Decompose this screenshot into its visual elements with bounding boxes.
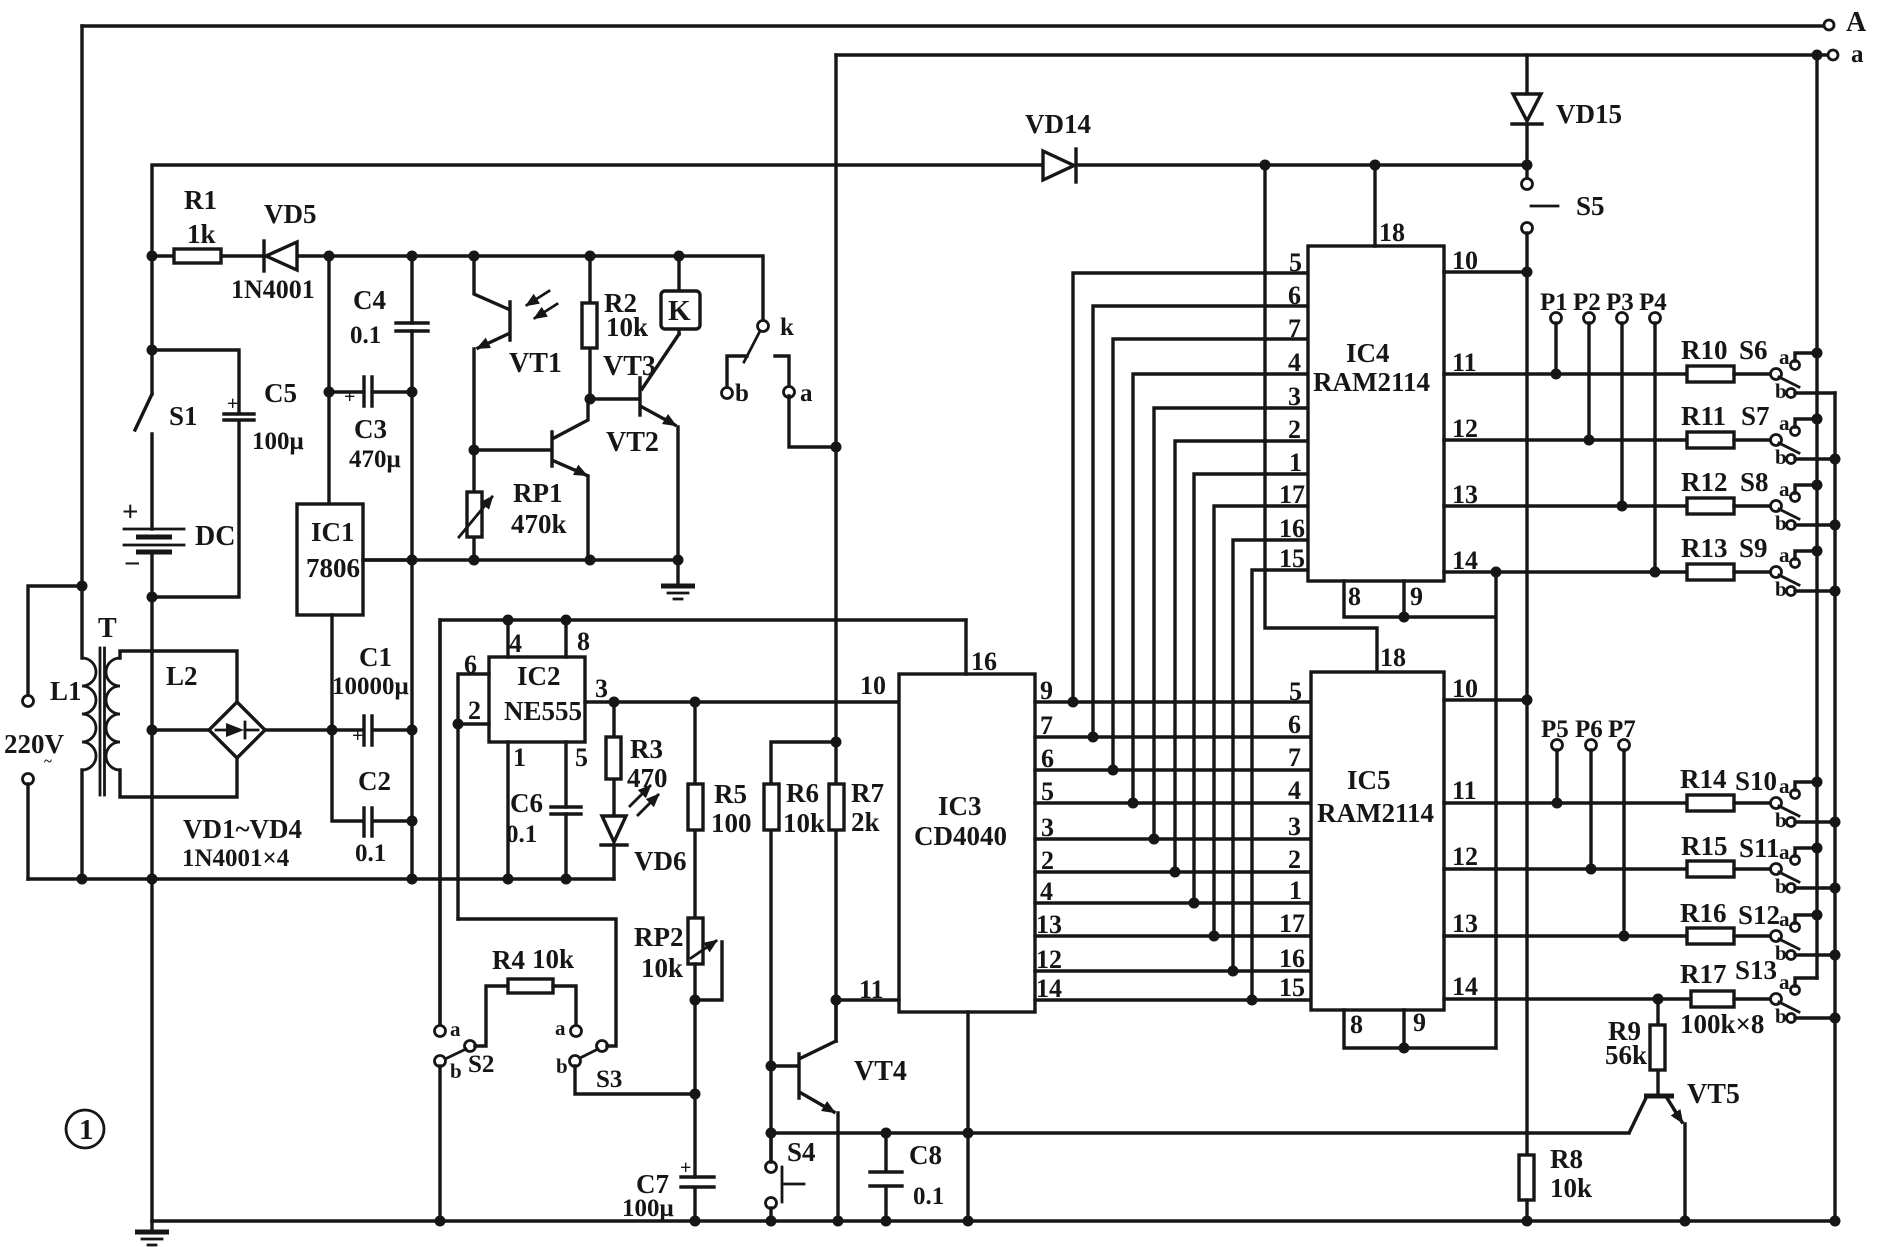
svg-text:9: 9 [1413,1008,1426,1037]
svg-text:VD14: VD14 [1025,109,1091,139]
svg-text:8: 8 [577,627,590,656]
node battery-S1 junction [147,345,158,356]
wire IC3-IC5 data lines [1035,702,1311,1000]
svg-text:VD6: VD6 [634,846,687,876]
node R2-VT3 junction [585,394,596,405]
pin labels IC5 bottom [1350,1008,1426,1039]
wire second rail a [836,53,1828,56]
node C2 right [407,816,418,827]
svg-text:2: 2 [468,696,481,725]
svg-text:2: 2 [1288,415,1301,444]
node R3 top [609,697,620,708]
svg-text:a: a [1779,543,1790,567]
wire address cascade 8 [1214,506,1308,936]
svg-text:5: 5 [1289,677,1302,706]
svg-text:DC: DC [195,521,235,552]
svg-text:RAM2114: RAM2114 [1317,798,1434,828]
svg-text:VD15: VD15 [1556,99,1622,129]
node C1 right [407,725,418,736]
svg-text:7: 7 [1288,314,1301,343]
wire battery negative column [150,597,153,1221]
svg-text:3: 3 [1288,812,1301,841]
op-amp IC1 regulator 7806 [297,504,412,730]
resistor R9 [1605,999,1665,1096]
wire VCC riser to IC5 pin18 [1265,165,1377,672]
wire address cascade 9 [1233,540,1308,971]
svg-text:100μ: 100μ [252,428,304,455]
svg-text:6: 6 [1288,710,1301,739]
svg-text:15: 15 [1279,544,1305,573]
switch S6 [1739,335,1835,403]
svg-text:14: 14 [1452,972,1478,1001]
svg-text:0.1: 0.1 [355,840,386,867]
resistor R10 [1681,335,1771,382]
svg-text:2: 2 [1041,846,1054,875]
switch S7 [1741,401,1835,469]
wire VD14 rail [152,165,1527,256]
svg-text:S8: S8 [1740,467,1769,497]
svg-text:5: 5 [1041,777,1054,806]
svg-text:R6: R6 [786,778,819,808]
node border 220V tap [77,581,88,592]
op-amp IC4 RAM2114 [1308,165,1444,581]
svg-text:100k×8: 100k×8 [1680,1009,1764,1039]
svg-text:R16: R16 [1680,898,1727,928]
capacitor C2 [332,730,412,867]
svg-text:a: a [1779,345,1790,369]
resistor R16 [1680,898,1771,944]
pin labels IC4 left [1279,248,1305,573]
svg-text:S2: S2 [468,1051,494,1078]
svg-text:470μ: 470μ [349,446,401,473]
capacitor C1 [265,642,412,747]
svg-text:IC3: IC3 [938,791,982,821]
switch S3 [458,919,695,1094]
op-amp IC3 CD4040 [836,620,1035,1221]
node rail560 junctions [407,555,418,566]
svg-text:R12: R12 [1681,467,1728,497]
node R17-R9 junction [1653,994,1664,1005]
node C3 left [324,387,335,398]
svg-text:RP1: RP1 [513,478,563,508]
svg-text:R10: R10 [1681,335,1728,365]
svg-text:NE555: NE555 [504,696,582,726]
transistor VT1 photo [474,256,562,450]
wire address cascade 3 [1113,339,1308,770]
wire address cascade 7 [1194,474,1308,903]
svg-text:R13: R13 [1681,533,1728,563]
pin labels IC5 left [1279,677,1305,1002]
svg-text:13: 13 [1036,910,1062,939]
svg-text:7: 7 [1288,743,1301,772]
svg-text:C8: C8 [909,1140,942,1170]
resistor R12 [1681,467,1771,514]
switch S2 with resistor R4 [435,620,509,1221]
switch S12 [1738,900,1835,965]
svg-text:VT1: VT1 [509,348,562,379]
svg-text:b: b [1775,511,1787,535]
svg-text:9: 9 [1410,582,1423,611]
svg-text:VD5: VD5 [264,199,317,229]
node pin2-6 junction [453,719,464,730]
svg-text:100: 100 [711,808,752,838]
transistor VT5 [1630,1079,1740,1221]
switch S1 [135,256,198,529]
pin labels IC4 right [1452,246,1478,575]
node a terminal [1828,41,1864,68]
node pin4 pin8 supply [503,615,514,626]
svg-text:K: K [668,295,691,327]
svg-text:0.1: 0.1 [913,1183,944,1210]
node battery bottom junction [147,592,158,603]
resistor R3 [606,702,668,815]
node C3 right [407,387,418,398]
wire IC5 right pins [1444,700,1691,999]
svg-text:S1: S1 [169,401,198,431]
svg-text:11: 11 [1452,776,1477,805]
svg-text:VT2: VT2 [606,427,659,458]
svg-text:IC4: IC4 [1346,338,1390,368]
node A terminal [1824,7,1867,38]
node cascade junctions [1068,697,1079,708]
svg-text:0.1: 0.1 [506,821,537,848]
svg-text:a: a [1779,840,1790,864]
wire bottom rail [152,1219,1836,1222]
node rail255 junctions [324,251,335,262]
svg-text:4: 4 [509,629,522,658]
wire C4 column [410,256,413,879]
resistor R1 [174,185,221,263]
capacitor C3 [329,377,412,473]
node riser junctions [1260,160,1271,171]
node R5 top [690,697,701,708]
svg-text:10k: 10k [1550,1173,1592,1203]
svg-text:1: 1 [513,743,526,772]
svg-text:0.1: 0.1 [350,322,381,349]
diode VD14 [1025,109,1091,182]
node RP2 wiper return [690,995,701,1006]
node IC4 pin10-S5 [1522,267,1533,278]
node IC3 pin11 junction [831,995,842,1006]
resistor R8 [1519,1144,1592,1221]
node IC5 bracket junction [1399,1043,1410,1054]
svg-text:18: 18 [1380,643,1406,672]
svg-text:S6: S6 [1739,335,1768,365]
svg-text:+: + [227,393,238,415]
inductor L2 secondary [106,651,237,797]
svg-text:10k: 10k [606,312,648,342]
node P2 [1573,289,1601,446]
svg-text:C1: C1 [359,642,392,672]
wire address cascade 6 [1175,441,1308,872]
led VD6 [601,786,687,879]
relay K [661,256,700,334]
switch S13 [1735,955,1835,1028]
svg-text:R4: R4 [492,945,525,975]
svg-text:6: 6 [1288,281,1301,310]
svg-text:5: 5 [575,743,588,772]
svg-text:S13: S13 [1735,955,1777,985]
op-amp IC2 NE555 [458,620,899,919]
svg-text:+: + [680,1157,691,1179]
wire IC4 right pins [1444,272,1687,572]
wire S4 to VT5 line 1133 [771,1133,1629,1162]
svg-text:4: 4 [1288,348,1301,377]
svg-text:16: 16 [1279,514,1305,543]
svg-text:1N4001×4: 1N4001×4 [182,845,290,872]
svg-text:VT4: VT4 [854,1056,907,1087]
node b-bus junctions [1830,454,1841,465]
switch S9 [1739,533,1835,601]
node bridge negative [147,725,158,736]
rectifier bridge VD1-VD4 [182,702,302,872]
svg-text:b: b [1775,1004,1787,1028]
svg-text:IC5: IC5 [1347,765,1391,795]
node P5 [1541,716,1569,809]
svg-text:1k: 1k [187,219,216,249]
svg-text:L2: L2 [166,661,198,691]
svg-text:3: 3 [1041,813,1054,842]
svg-text:C3: C3 [354,414,387,444]
node common junctions [77,874,88,885]
svg-text:4: 4 [1288,776,1301,805]
node S3b-C7 junction [690,1089,701,1100]
wire IC4 pins 8 9 bracket [1344,572,1496,1048]
svg-text:16: 16 [1279,944,1305,973]
svg-text:C2: C2 [358,766,391,796]
svg-text:5: 5 [1289,248,1302,277]
svg-text:b: b [735,380,749,407]
wire k-a bus vertical [834,55,837,1041]
node C8 line junction [963,1128,974,1139]
node VT2 base junction [469,445,480,456]
svg-text:+: + [122,496,139,528]
node P4 [1639,289,1667,578]
svg-text:220V: 220V [4,729,65,759]
svg-text:S9: S9 [1739,533,1768,563]
svg-text:R5: R5 [714,779,747,809]
svg-text:a: a [1779,774,1790,798]
svg-text:10k: 10k [532,944,574,974]
wire common line 879 [28,877,614,880]
diode VD15 [1512,55,1622,165]
node bottom rail junctions [435,1216,446,1227]
svg-text:RAM2114: RAM2114 [1313,367,1430,397]
svg-text:R15: R15 [1681,831,1728,861]
potentiometer RP1 [459,450,567,560]
svg-text:b: b [1775,577,1787,601]
node P1 [1540,289,1568,380]
svg-text:a: a [1779,477,1790,501]
svg-text:L1: L1 [50,676,82,706]
svg-text:100μ: 100μ [622,1195,674,1222]
switch S10 [1735,766,1835,832]
transformer core [100,648,105,795]
wire address cascade 10 [1252,570,1308,1000]
svg-text:3: 3 [595,674,608,703]
switch S8 [1740,467,1835,535]
transistor VT3 [590,334,679,560]
svg-text:S11: S11 [1739,833,1780,863]
battery DC [122,496,235,597]
switch k contacts [722,314,837,447]
node P3 [1606,289,1634,512]
resistor R13 [1681,533,1771,580]
svg-text:b: b [556,1054,568,1078]
svg-text:C5: C5 [264,378,297,408]
svg-text:S3: S3 [596,1066,622,1093]
svg-text:S7: S7 [1741,401,1770,431]
svg-text:a: a [450,1017,461,1041]
svg-text:R11: R11 [1681,401,1726,431]
switch S11 [1739,833,1835,898]
op-amp IC5 RAM2114 [1311,643,1444,1010]
svg-text:6: 6 [1041,744,1054,773]
resistor R11 [1681,401,1771,448]
svg-text:k: k [780,314,794,341]
svg-text:a: a [1851,41,1864,68]
pin labels IC4 bottom [1348,582,1423,611]
node bracket junctions [1399,612,1410,623]
wire address cascade 4 [1133,374,1308,803]
wire address cascade 1 [1073,273,1308,702]
transistor VT2 [474,399,659,560]
transistor VT4 [771,1000,907,1221]
pin labels IC5 right [1452,674,1478,1001]
svg-text:a: a [1779,970,1790,994]
wire top rail A [82,24,1824,27]
svg-text:7806: 7806 [306,553,360,583]
svg-text:17: 17 [1279,909,1305,938]
svg-text:56k: 56k [1605,1040,1647,1070]
node a-bus junction [831,442,842,453]
wire left border [80,26,83,879]
svg-text:S4: S4 [787,1137,816,1167]
svg-text:C4: C4 [353,285,386,315]
svg-text:−: − [124,548,141,580]
svg-text:2k: 2k [851,807,880,837]
svg-text:b: b [1775,874,1787,898]
svg-text:17: 17 [1279,480,1305,509]
potentiometer RP2 [634,918,722,1177]
svg-text:R7: R7 [851,778,884,808]
resistor R6 [764,742,836,1162]
svg-text:9: 9 [1040,676,1053,705]
svg-text:CD4040: CD4040 [914,821,1007,851]
node P6 [1575,716,1603,875]
svg-text:VT5: VT5 [1687,1079,1740,1110]
diode VD5 [231,199,317,304]
svg-text:8: 8 [1348,582,1361,611]
capacitor C4 [350,285,428,349]
svg-text:16: 16 [971,647,997,676]
svg-text:18: 18 [1379,218,1405,247]
capacitor C8 [870,1133,944,1221]
svg-text:10k: 10k [641,953,683,983]
svg-text:+: + [344,386,355,408]
svg-text:a: a [555,1016,566,1040]
wire address cascade 2 [1093,306,1308,737]
svg-text:~: ~ [44,754,52,770]
resistor R2 [582,256,648,399]
svg-text:T: T [98,613,117,644]
svg-text:10k: 10k [783,808,825,838]
svg-text:VD1~VD4: VD1~VD4 [183,814,302,844]
ground bottom left [135,1221,169,1245]
wire IC5 pins 8 9 bracket [1344,1010,1496,1048]
svg-text:12: 12 [1452,842,1478,871]
svg-text:R14: R14 [1680,764,1727,794]
svg-text:1: 1 [1289,876,1302,905]
svg-text:C6: C6 [510,788,543,818]
svg-text:IC1: IC1 [311,517,355,547]
resistor R14 [1680,764,1771,811]
svg-text:10: 10 [860,671,886,700]
node figure number 1 [66,1110,104,1148]
node C8 bottom rail [881,1216,892,1227]
switch S4 [766,1137,816,1221]
node IC5 pin10-column [1522,695,1533,706]
resistor R15 [1681,831,1771,877]
capacitor C6 [506,788,581,848]
node R6R7 top junction [831,737,842,748]
node VT4 base junction [766,1061,777,1072]
node C1 left IC1 gnd [327,725,338,736]
svg-text:14: 14 [1036,974,1062,1003]
svg-text:1: 1 [1289,448,1302,477]
svg-text:a: a [1779,411,1790,435]
svg-text:a: a [800,380,813,407]
svg-text:b: b [1775,445,1787,469]
wire top rail 255 [152,256,763,321]
svg-text:13: 13 [1452,909,1478,938]
svg-text:12: 12 [1036,945,1062,974]
svg-text:R17: R17 [1680,959,1727,989]
svg-text:3: 3 [1288,382,1301,411]
node P7 [1608,716,1636,942]
resistor R5 [688,702,752,918]
svg-text:1N4001: 1N4001 [231,275,315,304]
svg-text:7: 7 [1040,711,1053,740]
capacitor C7 [622,1157,714,1222]
svg-text:R8: R8 [1550,1144,1583,1174]
node R1 left junction [147,251,158,262]
svg-text:b: b [1775,808,1787,832]
svg-text:a: a [1779,907,1790,931]
svg-text:b: b [1775,379,1787,403]
svg-text:+: + [352,725,363,747]
svg-text:IC2: IC2 [517,661,561,691]
svg-text:10000μ: 10000μ [332,673,409,700]
svg-text:8: 8 [1350,1010,1363,1039]
wire rail 560 [363,558,678,561]
capacitor C5 [152,350,304,597]
wire NE555 supply line 620 [440,620,966,1026]
resistor R7 [829,778,884,837]
wire C3-IC1 column [327,256,330,504]
resistor R4 [492,944,576,1026]
wire bridge negative to battery line [152,728,209,731]
svg-text:b: b [450,1059,462,1083]
resistor R17 [1680,959,1771,1039]
wire 220V input loop [4,586,82,879]
svg-text:6: 6 [464,650,477,679]
wire b-contact bus [1833,393,1836,1221]
wire a-contact bus [1815,55,1818,978]
svg-text:S5: S5 [1576,191,1605,221]
svg-text:R3: R3 [630,734,663,764]
svg-text:1: 1 [79,1114,94,1146]
